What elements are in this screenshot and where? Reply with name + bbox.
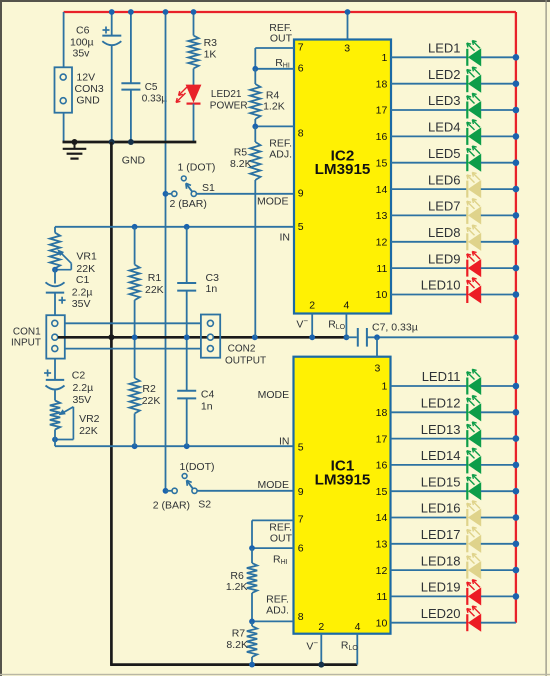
svg-text:35V: 35V — [73, 394, 92, 406]
LED13 (green) — [376, 422, 520, 447]
svg-text:10: 10 — [376, 617, 388, 629]
svg-text:R1: R1 — [148, 272, 162, 284]
svg-text:C4: C4 — [201, 389, 215, 401]
IC2 pin 8 REF ADJ wire — [255, 126, 303, 160]
svg-text:10: 10 — [376, 289, 388, 301]
svg-text:3: 3 — [374, 362, 380, 374]
svg-text:1.2K: 1.2K — [226, 581, 248, 593]
svg-text:22K: 22K — [79, 425, 98, 437]
svg-text:C1: C1 — [76, 274, 90, 286]
node IC1 pin2 ground junction — [318, 662, 324, 668]
svg-text:OUT: OUT — [270, 533, 293, 545]
svg-text:R5: R5 — [234, 147, 248, 159]
resistor R6 1.2K — [226, 548, 257, 621]
svg-text:ADJ.: ADJ. — [269, 149, 292, 161]
IC1 pin 5 label — [298, 442, 304, 454]
svg-text:ADJ.: ADJ. — [266, 604, 289, 616]
IC1 pin 4 RLO wire — [341, 621, 361, 665]
LED2 (green) — [376, 67, 520, 92]
IC1 pin 6 RHI wire — [252, 543, 304, 567]
node pin7/pin6 junction IC1 — [249, 545, 255, 551]
LED6 (yellow) — [376, 172, 520, 197]
svg-text:S1: S1 — [202, 182, 215, 194]
svg-text:R3: R3 — [204, 37, 218, 49]
svg-text:35V: 35V — [72, 298, 91, 310]
node R2/IN junction — [132, 443, 138, 449]
svg-text:R7: R7 — [232, 628, 246, 640]
wire S2 to IC1 MODE pin 9 — [197, 479, 294, 491]
ground symbol — [63, 142, 146, 167]
svg-text:IN: IN — [279, 435, 290, 447]
svg-text:1: 1 — [381, 52, 387, 64]
LED9 (red) — [376, 251, 519, 276]
wire R3 to LED21 — [193, 69, 195, 86]
svg-text:CON1: CON1 — [13, 326, 41, 337]
node VR1 wiper junction — [52, 267, 58, 284]
node VR2 wiper junction — [52, 430, 58, 447]
svg-text:16: 16 — [376, 131, 388, 143]
wire C5 to rail — [130, 12, 132, 83]
connector CON1 INPUT — [11, 315, 65, 358]
svg-text:9: 9 — [298, 188, 304, 200]
node IC1 pin3 junction — [374, 334, 380, 340]
resistor R2 22K — [129, 337, 160, 446]
svg-text:8.2K: 8.2K — [226, 639, 248, 651]
svg-text:LED5: LED5 — [428, 146, 461, 161]
svg-text:MODE: MODE — [257, 196, 289, 208]
svg-text:VR1: VR1 — [76, 251, 97, 263]
svg-text:1K: 1K — [204, 49, 217, 61]
svg-text:8: 8 — [298, 128, 304, 140]
IC1 pin 8 REF ADJ wire — [252, 593, 304, 623]
capacitor C2 2.2u 35V — [44, 370, 93, 406]
svg-text:LED15: LED15 — [421, 474, 461, 489]
svg-text:3: 3 — [344, 43, 350, 55]
wire IC2 IN line — [55, 227, 295, 244]
svg-text:12: 12 — [376, 237, 388, 249]
LED12 (green) — [376, 396, 520, 421]
node IC2 pin4 ground junction — [344, 334, 350, 340]
node R1/IN junction — [132, 224, 138, 230]
svg-text:CON3: CON3 — [75, 83, 104, 95]
svg-text:14: 14 — [376, 184, 388, 196]
LED14 (green) — [376, 448, 520, 473]
resistor R1 22K — [129, 227, 163, 337]
svg-text:LED21: LED21 — [211, 89, 242, 100]
svg-text:LED10: LED10 — [421, 278, 461, 293]
svg-text:IN: IN — [280, 231, 291, 243]
svg-text:R2: R2 — [142, 383, 156, 395]
svg-text:13: 13 — [376, 539, 388, 551]
svg-text:LED7: LED7 — [428, 199, 461, 214]
node C3 bottom junction — [184, 334, 190, 340]
svg-text:18: 18 — [376, 407, 388, 419]
IC2 pin 2 V- wire — [296, 300, 315, 338]
wire ground bus bottom (black) — [110, 663, 357, 666]
wire +12V right rail (LED anode rail) — [515, 12, 517, 623]
svg-text:LED2: LED2 — [428, 67, 461, 82]
wire CON3 12V to rail — [63, 12, 65, 68]
resistor R4 1.2K — [250, 69, 285, 127]
wire mode-select V+ line (rail to S1/S2) — [165, 12, 167, 491]
capacitor C5 0.33u — [121, 82, 167, 104]
capacitor C3 1n — [177, 227, 219, 337]
svg-text:2 (BAR): 2 (BAR) — [153, 499, 190, 511]
IC2 pin 5 label — [298, 221, 304, 233]
svg-text:11: 11 — [376, 591, 387, 603]
wire IN line to VR1 — [54, 227, 56, 233]
node pin3/rail junction — [345, 9, 351, 15]
IC2 pin 4 RLO wire — [328, 300, 349, 338]
potentiometer VR2 22K — [50, 401, 100, 440]
svg-text:C2: C2 — [72, 370, 86, 382]
IC1 pin 2 V- wire — [306, 621, 324, 665]
svg-text:14: 14 — [376, 512, 388, 524]
wire ground bus vertical (black) — [110, 142, 113, 665]
node mode wire rail junction — [163, 9, 169, 15]
svg-text:LED1: LED1 — [428, 41, 461, 56]
svg-text:MODE: MODE — [258, 389, 290, 401]
svg-text:LED11: LED11 — [422, 369, 461, 384]
svg-text:18: 18 — [376, 78, 388, 90]
IC1 pin 9 label — [298, 486, 304, 498]
op-amp driver IC1 LM3915 — [294, 357, 391, 634]
svg-text:35v: 35v — [73, 48, 91, 60]
node C3/IN junction — [184, 224, 190, 230]
wire C1 to CON1 — [54, 293, 56, 316]
LED7 (yellow) — [376, 199, 520, 224]
svg-text:22K: 22K — [145, 284, 164, 296]
IC1 pin 3 wire — [374, 337, 380, 374]
LED15 (green) — [376, 474, 520, 499]
LED18 (yellow) — [376, 553, 520, 578]
LED4 (green) — [376, 120, 520, 145]
IC2 pin 3 wire to rail — [344, 12, 350, 55]
switch S2 — [153, 461, 215, 512]
svg-text:1(DOT): 1(DOT) — [180, 461, 215, 473]
svg-text:12V: 12V — [76, 72, 95, 84]
svg-text:2: 2 — [309, 300, 315, 312]
svg-text:5: 5 — [298, 221, 304, 233]
svg-text:5: 5 — [298, 442, 304, 454]
node R3 rail junction — [191, 9, 197, 15]
wire input-output bottom link — [65, 348, 201, 350]
node IC2 pin2 ground junction — [309, 334, 315, 340]
svg-text:7: 7 — [298, 41, 304, 53]
svg-text:LED3: LED3 — [428, 93, 461, 108]
IC2 pin 7 REF OUT wire — [255, 22, 303, 69]
LED8 (yellow) — [376, 225, 520, 250]
svg-text:C6: C6 — [76, 25, 90, 37]
svg-text:1.2K: 1.2K — [263, 101, 285, 113]
svg-text:4: 4 — [343, 300, 349, 312]
LED5 (green) — [376, 146, 520, 171]
svg-text:GND: GND — [76, 95, 100, 107]
svg-text:1 (DOT): 1 (DOT) — [178, 162, 216, 174]
svg-text:MODE: MODE — [258, 479, 290, 491]
svg-text:8: 8 — [298, 611, 304, 623]
svg-text:LED6: LED6 — [428, 172, 461, 187]
svg-text:C5: C5 — [145, 82, 158, 93]
LED1 (green) — [381, 41, 519, 66]
connector CON2 OUTPUT — [201, 315, 266, 367]
svg-text:4: 4 — [355, 621, 361, 633]
svg-text:LM3915: LM3915 — [315, 161, 371, 178]
svg-text:100µ: 100µ — [70, 36, 94, 48]
svg-text:POWER: POWER — [210, 100, 248, 111]
resistor R3 1K — [188, 36, 217, 69]
svg-text:16: 16 — [376, 460, 388, 472]
IC2 pin 6 RHI wire — [255, 57, 303, 74]
wire ground line (black) — [63, 139, 197, 145]
svg-text:LED14: LED14 — [421, 448, 461, 463]
node pin8/R6 junction IC1 — [249, 619, 255, 625]
svg-text:INPUT: INPUT — [11, 338, 41, 349]
wire C2 to VR2 — [54, 391, 56, 401]
potentiometer VR1 22K — [50, 233, 97, 275]
LED17 (yellow) — [376, 527, 520, 552]
IC2 pin 9 label — [298, 188, 304, 200]
svg-text:1n: 1n — [201, 400, 213, 412]
svg-text:LED12: LED12 — [421, 396, 461, 411]
wire +12V top rail — [64, 11, 516, 13]
svg-text:LM3915: LM3915 — [315, 471, 371, 488]
LED3 (green) — [376, 93, 520, 118]
svg-text:2: 2 — [318, 621, 324, 633]
node C4/IN junction — [184, 443, 190, 449]
svg-text:VR2: VR2 — [79, 413, 100, 425]
node C6 rail junction — [109, 9, 115, 15]
node R5 bottom junction — [252, 334, 258, 340]
wire C6 to rail — [111, 12, 113, 36]
svg-text:OUTPUT: OUTPUT — [225, 356, 266, 367]
svg-text:2.2µ: 2.2µ — [72, 286, 93, 298]
wire C6 to ground line — [111, 45, 113, 142]
wire S1 to IC2 MODE pin 9 — [196, 194, 294, 208]
svg-text:LED17: LED17 — [421, 527, 461, 542]
svg-text:22K: 22K — [142, 395, 161, 407]
switch S1 — [163, 162, 216, 211]
svg-text:LED16: LED16 — [421, 501, 461, 516]
wire signal ground line (black) — [58, 336, 345, 339]
svg-text:LED8: LED8 — [428, 225, 461, 240]
wire IC1 IN line — [55, 435, 294, 447]
svg-text:OUT: OUT — [270, 33, 293, 45]
op-amp driver IC2 LM3915 — [294, 40, 391, 314]
resistor R5 8.2K — [230, 126, 261, 337]
svg-text:LED9: LED9 — [428, 251, 461, 266]
svg-text:1n: 1n — [206, 283, 218, 295]
wire CON3 GND down — [63, 113, 65, 143]
svg-text:LED19: LED19 — [421, 580, 461, 595]
svg-text:2 (BAR): 2 (BAR) — [170, 198, 207, 210]
svg-text:CON2: CON2 — [228, 344, 256, 355]
capacitor C4 1n — [177, 337, 214, 446]
wire C5 to ground line — [130, 90, 132, 142]
svg-text:13: 13 — [376, 210, 388, 222]
capacitor C1 2.2u 35V — [46, 274, 93, 310]
svg-text:7: 7 — [298, 514, 304, 526]
svg-text:1: 1 — [381, 381, 387, 393]
svg-text:12: 12 — [376, 565, 388, 577]
svg-text:8.2K: 8.2K — [230, 158, 252, 170]
LED16 (yellow) — [376, 501, 520, 526]
svg-text:17: 17 — [376, 105, 388, 117]
node pin8/R4 junction — [252, 124, 258, 130]
svg-text:11: 11 — [376, 263, 387, 275]
node R7 ground junction — [249, 662, 255, 668]
svg-text:6: 6 — [298, 62, 304, 74]
svg-text:9: 9 — [298, 486, 304, 498]
LED20 (red) — [376, 606, 516, 631]
svg-text:LED18: LED18 — [421, 553, 461, 568]
IC1 pin 7 REF OUT wire — [252, 514, 304, 549]
IC1 MODE pin 1 label — [258, 389, 290, 401]
wire R3 to rail — [193, 12, 195, 36]
svg-text:S2: S2 — [198, 499, 211, 511]
node C5 rail junction — [128, 9, 134, 15]
resistor R7 8.2K — [226, 621, 257, 664]
node ground bus junction — [108, 334, 114, 340]
connector CON3 — [55, 67, 104, 112]
capacitor C6 100u 35v — [70, 25, 121, 60]
svg-text:LED13: LED13 — [421, 422, 461, 437]
svg-text:0.33µ: 0.33µ — [142, 93, 167, 104]
wire CON1 to C2 — [54, 359, 56, 380]
svg-text:C7, 0.33µ: C7, 0.33µ — [372, 322, 418, 334]
svg-text:GND: GND — [122, 155, 146, 167]
svg-text:15: 15 — [376, 157, 388, 169]
svg-text:17: 17 — [376, 433, 388, 445]
node C7 rail junction — [513, 334, 519, 340]
svg-text:LED20: LED20 — [421, 606, 461, 621]
capacitor C7 0.33u — [345, 322, 516, 347]
svg-text:2.2µ: 2.2µ — [73, 382, 94, 394]
LED10 (red) — [376, 278, 520, 303]
LED11 (green) — [381, 369, 519, 394]
svg-text:15: 15 — [376, 486, 388, 498]
wire LED21 to ground line — [193, 104, 195, 143]
node pin7/pin6 junction — [252, 66, 258, 72]
node R1 bottom junction — [132, 334, 138, 340]
svg-text:6: 6 — [298, 543, 304, 555]
wire input-output top link — [65, 322, 201, 324]
LED21 POWER (red) — [176, 85, 247, 111]
LED19 (red) — [376, 580, 519, 605]
svg-text:LED4: LED4 — [428, 120, 461, 135]
